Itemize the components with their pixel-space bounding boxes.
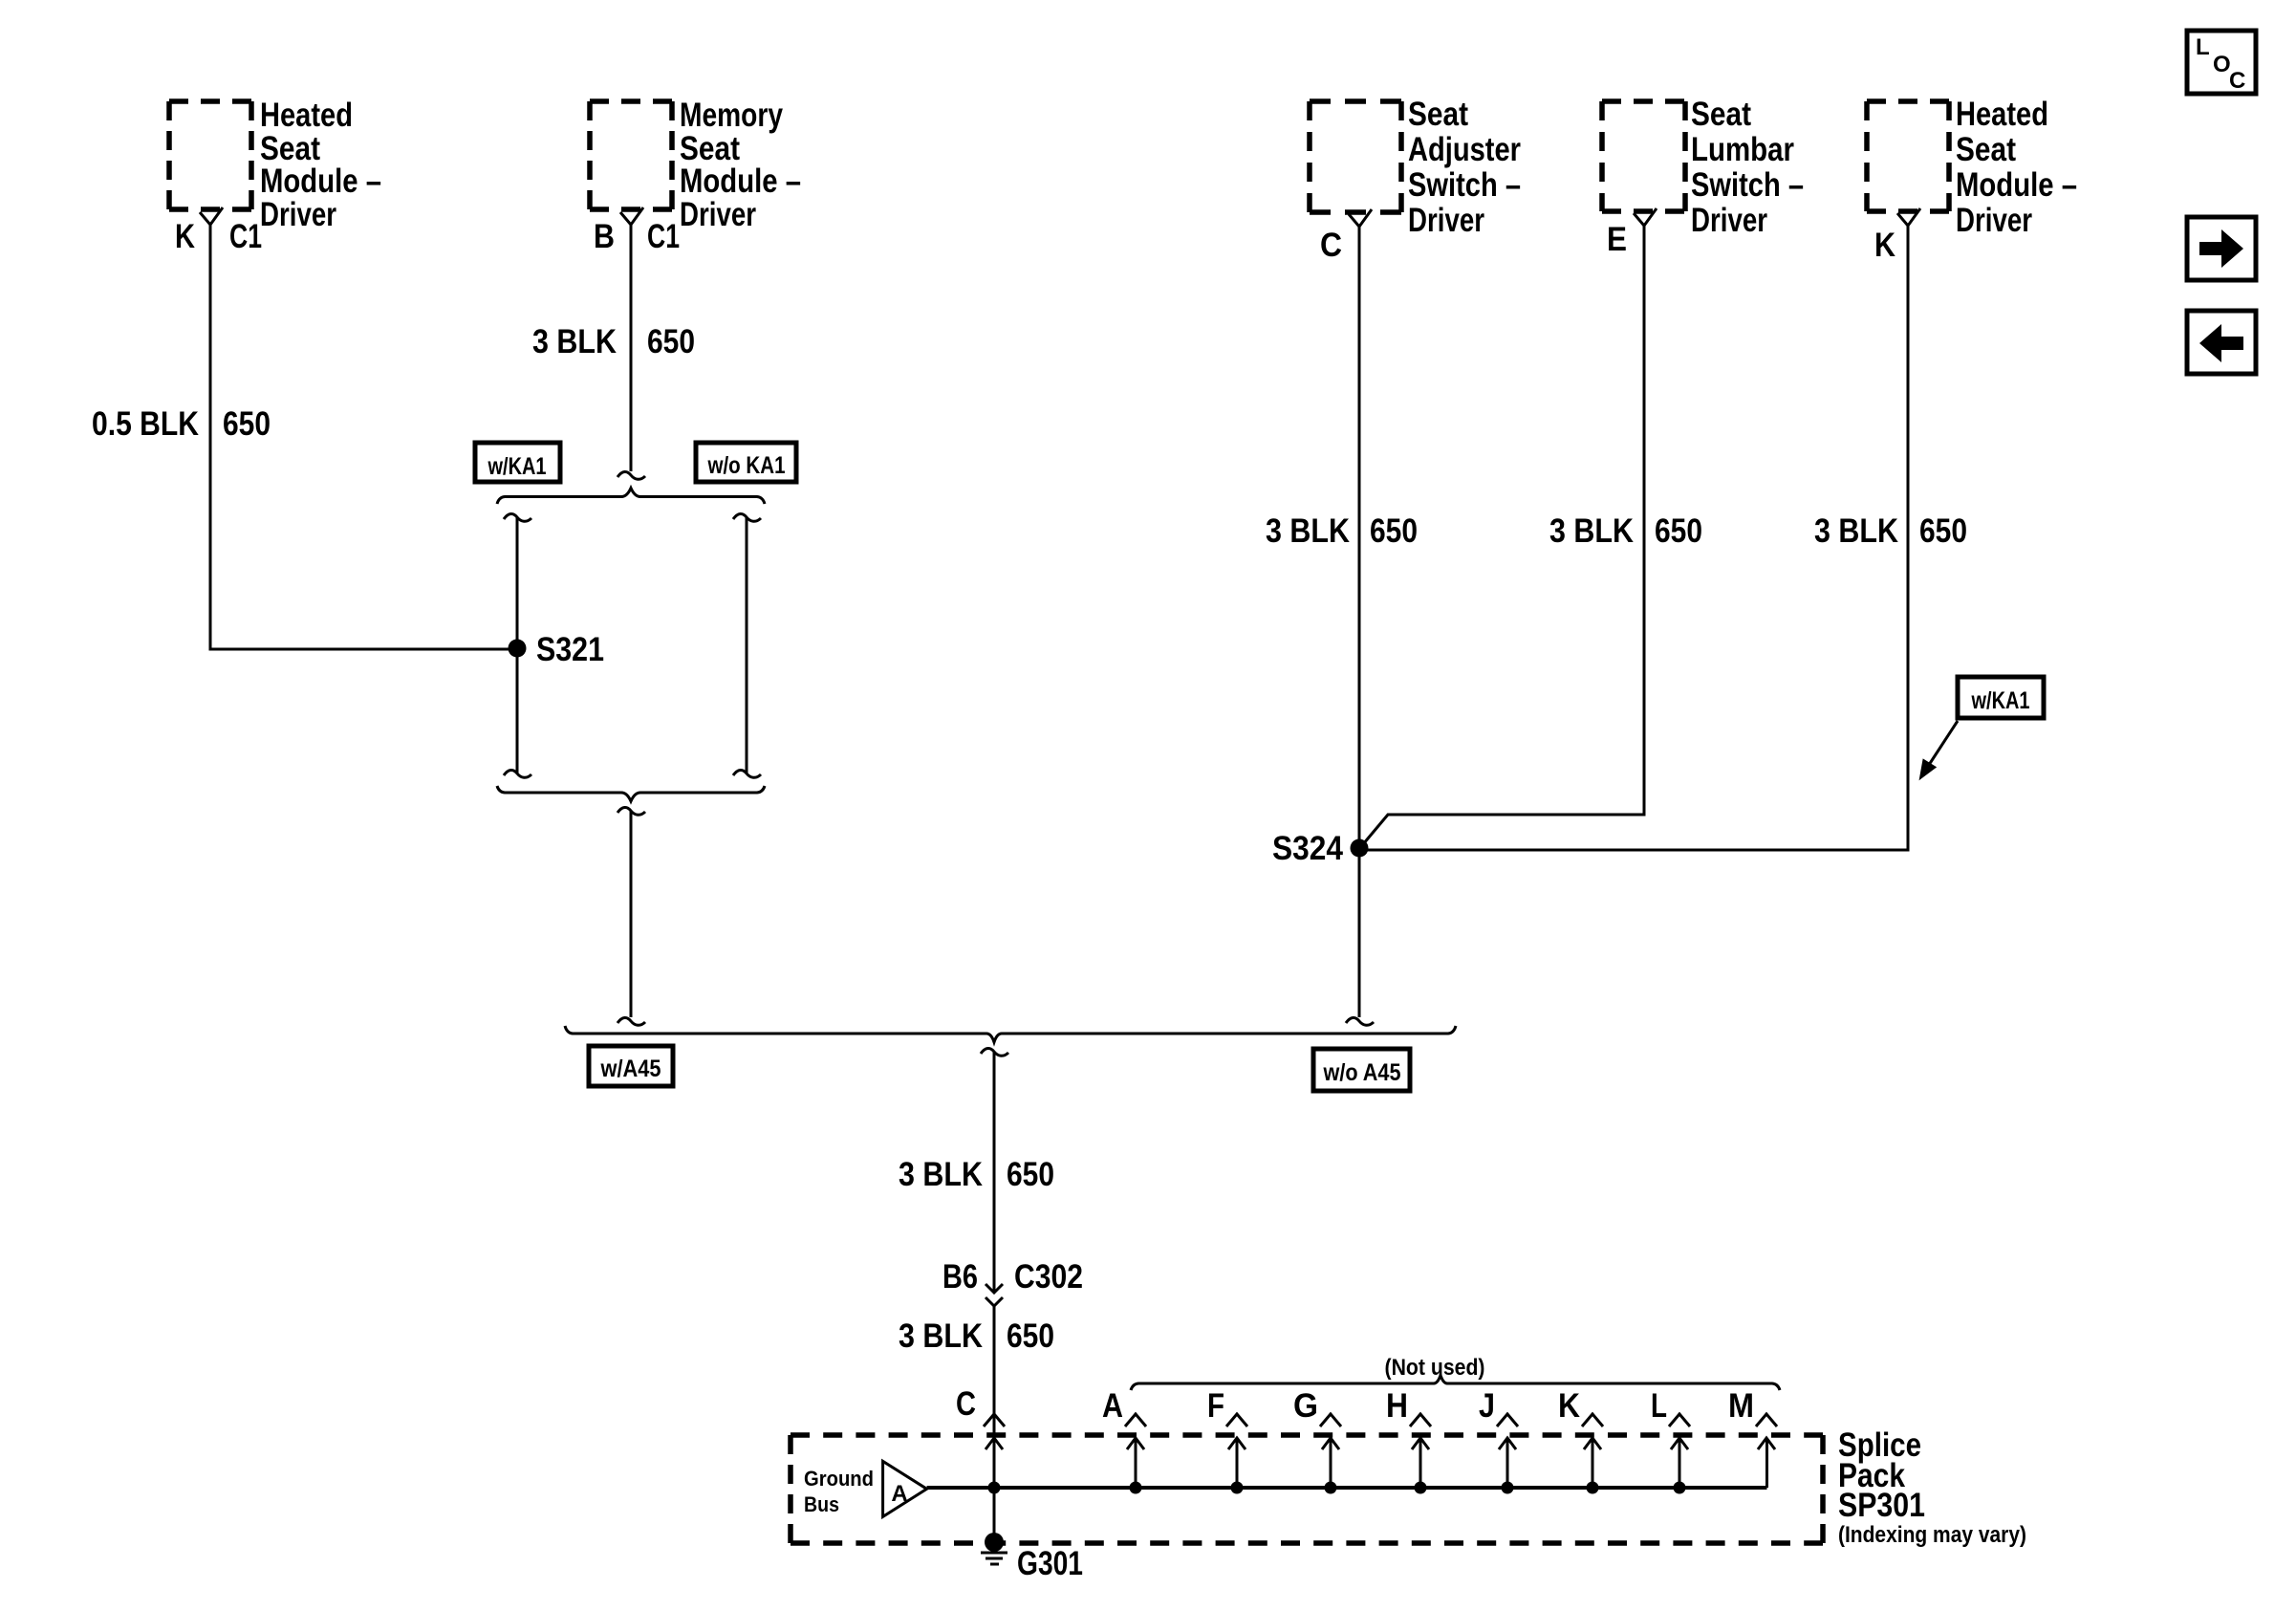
svg-text:3 BLK: 3 BLK bbox=[899, 1156, 983, 1193]
splice pack pin A bbox=[1102, 1387, 1146, 1494]
brace: (Not used) group over pins A-M bbox=[1131, 1355, 1780, 1390]
svg-text:G: G bbox=[1293, 1387, 1318, 1425]
wire: 3 BLK 650 from pin K down and left to S324 bbox=[1363, 225, 1908, 850]
svg-text:Driver: Driver bbox=[1691, 202, 1767, 239]
svg-text:Seat: Seat bbox=[1691, 96, 1751, 133]
svg-text:A: A bbox=[891, 1481, 907, 1507]
splice pack pin G bbox=[1293, 1387, 1341, 1494]
wire: 3 BLK 650 from pin C down to A45 split bbox=[1346, 226, 1374, 1025]
svg-text:SP301: SP301 bbox=[1838, 1487, 1925, 1524]
svg-text:650: 650 bbox=[223, 405, 271, 443]
option box w/A45 bbox=[589, 1046, 673, 1086]
svg-text:C: C bbox=[1320, 227, 1342, 264]
wire label 3 BLK 650 (E) bbox=[1549, 512, 1702, 550]
wire label 3 BLK 650 (above C302) bbox=[899, 1156, 1054, 1193]
svg-text:Ground: Ground bbox=[804, 1467, 874, 1491]
svg-text:S324: S324 bbox=[1272, 830, 1343, 867]
component: Heated Seat Module - Driver (right) dashed box bbox=[1867, 96, 2077, 239]
wire: merged segment down to A45 split bbox=[617, 807, 645, 1025]
svg-text:J: J bbox=[1479, 1387, 1495, 1425]
legend: right arrow box bbox=[2187, 217, 2256, 280]
brace: option merge bottom (cusp down) bbox=[497, 786, 765, 801]
svg-text:K: K bbox=[1558, 1387, 1580, 1425]
svg-text:Module –: Module – bbox=[260, 163, 381, 200]
svg-text:650: 650 bbox=[1919, 512, 1967, 550]
svg-text:C1: C1 bbox=[647, 218, 680, 255]
svg-text:(Not used): (Not used) bbox=[1385, 1355, 1485, 1381]
splice pack pin H bbox=[1386, 1387, 1431, 1494]
svg-text:K: K bbox=[1874, 227, 1895, 264]
brace: option split top (cusp up) bbox=[497, 489, 765, 505]
svg-text:C: C bbox=[2229, 68, 2245, 94]
svg-text:0.5 BLK: 0.5 BLK bbox=[92, 405, 199, 443]
svg-text:Seat: Seat bbox=[1956, 131, 2016, 168]
svg-text:K: K bbox=[175, 218, 195, 255]
svg-text:C1: C1 bbox=[229, 218, 262, 255]
svg-text:Driver: Driver bbox=[260, 196, 336, 233]
option box w/KA1 bbox=[475, 443, 560, 482]
svg-text:Lumbar: Lumbar bbox=[1691, 131, 1794, 168]
component: Splice Pack SP301 dashed box bbox=[791, 1435, 1823, 1543]
splice S321 bbox=[509, 631, 605, 668]
wire label 3 BLK 650 (C) bbox=[1266, 512, 1418, 550]
svg-text:3 BLK: 3 BLK bbox=[1549, 512, 1634, 550]
svg-text:650: 650 bbox=[1007, 1317, 1054, 1355]
brace: A45 option split (cusp down) bbox=[565, 1026, 1456, 1042]
svg-text:Driver: Driver bbox=[1408, 202, 1484, 239]
svg-text:M: M bbox=[1728, 1387, 1754, 1425]
pin E of Seat Lumbar Switch bbox=[1607, 208, 1657, 258]
splice S324 bbox=[1272, 830, 1369, 867]
svg-text:B: B bbox=[594, 218, 615, 255]
svg-text:3 BLK: 3 BLK bbox=[1266, 512, 1350, 550]
wire: 0.5 BLK 650 from pin K down and right to S321 bbox=[210, 224, 512, 649]
svg-text:3 BLK: 3 BLK bbox=[532, 323, 617, 360]
component: Heated Seat Module - Driver (left) dashed box bbox=[169, 97, 381, 233]
option box w/KA1 (right) with arrow to K wire bbox=[1920, 677, 2044, 778]
svg-text:Driver: Driver bbox=[680, 196, 756, 233]
wire: 3 BLK 650 from pin E down and left to S324 bbox=[1363, 225, 1644, 844]
splice pack pin F bbox=[1207, 1387, 1247, 1494]
wire: left option branch (w/KA1) bbox=[504, 513, 531, 777]
wire: ground bus horizontal bbox=[927, 1486, 1767, 1490]
connector B6 C302 in-line bbox=[942, 1258, 1083, 1306]
wire label 3 BLK 650 (K) bbox=[1814, 512, 1967, 550]
wire: 3 BLK 650 below C302 to splice pack bbox=[993, 1306, 996, 1534]
svg-text:650: 650 bbox=[647, 323, 695, 360]
svg-text:Switch –: Switch – bbox=[1691, 166, 1804, 204]
svg-text:Memory: Memory bbox=[680, 97, 783, 134]
svg-text:Switch –: Switch – bbox=[1408, 166, 1521, 204]
legend: left arrow box bbox=[2187, 311, 2256, 374]
svg-text:F: F bbox=[1207, 1387, 1224, 1425]
svg-text:H: H bbox=[1386, 1387, 1408, 1425]
svg-text:w/A45: w/A45 bbox=[600, 1056, 661, 1082]
pin B connector C1 of Memory Seat Module bbox=[594, 207, 680, 255]
svg-text:650: 650 bbox=[1370, 512, 1418, 550]
legend: LOC box bbox=[2187, 31, 2256, 94]
svg-text:Heated: Heated bbox=[1956, 96, 2048, 133]
svg-text:B6: B6 bbox=[942, 1258, 978, 1295]
node: C wire junction on bus bbox=[988, 1482, 1001, 1494]
svg-text:E: E bbox=[1607, 221, 1627, 258]
svg-text:w/o A45: w/o A45 bbox=[1323, 1059, 1401, 1086]
splice pack pin L bbox=[1651, 1387, 1690, 1494]
svg-text:A: A bbox=[1102, 1387, 1123, 1425]
splice pack pin M (bus corner) bbox=[1728, 1387, 1777, 1488]
svg-text:S321: S321 bbox=[536, 631, 604, 668]
svg-text:C302: C302 bbox=[1014, 1258, 1083, 1295]
svg-text:Driver: Driver bbox=[1956, 202, 2032, 239]
svg-text:w/KA1: w/KA1 bbox=[487, 453, 547, 480]
svg-text:w/KA1: w/KA1 bbox=[1971, 687, 2030, 714]
svg-text:Module –: Module – bbox=[1956, 166, 2077, 204]
svg-text:3 BLK: 3 BLK bbox=[899, 1317, 983, 1355]
splice pack pin J bbox=[1479, 1387, 1518, 1494]
svg-text:Heated: Heated bbox=[260, 97, 353, 134]
pin C of Seat Adjuster Switch bbox=[1320, 209, 1372, 264]
component: Seat Lumbar Switch - Driver dashed box bbox=[1602, 96, 1804, 239]
splice pack pin K bbox=[1558, 1387, 1603, 1494]
svg-text:G301: G301 bbox=[1017, 1545, 1083, 1582]
ground G301 bbox=[981, 1533, 1083, 1582]
wire label 3 BLK 650 (memory) bbox=[532, 323, 695, 360]
svg-text:(Indexing may vary): (Indexing may vary) bbox=[1838, 1522, 2026, 1548]
wire: common ground wire below A45 split bbox=[981, 1048, 1008, 1293]
pin K connector C1 of left Heated Seat Module bbox=[175, 207, 262, 255]
component: Seat Adjuster Switch - Driver dashed box bbox=[1310, 96, 1521, 239]
wire break symbol below memory wire bbox=[617, 471, 645, 479]
svg-text:Seat: Seat bbox=[1408, 96, 1468, 133]
svg-text:3 BLK: 3 BLK bbox=[1814, 512, 1898, 550]
wire: 3 BLK 650 from pin B down to option split bbox=[630, 224, 633, 471]
option box w/o KA1 bbox=[696, 443, 796, 482]
svg-text:Module –: Module – bbox=[680, 163, 801, 200]
svg-text:650: 650 bbox=[1655, 512, 1702, 550]
pin K of right Heated Seat Module bbox=[1874, 208, 1920, 264]
label Splice Pack SP301 bbox=[1838, 1426, 2026, 1548]
svg-text:650: 650 bbox=[1007, 1156, 1054, 1193]
option box w/o A45 bbox=[1313, 1049, 1410, 1091]
svg-text:O: O bbox=[2213, 52, 2231, 77]
svg-text:w/o KA1: w/o KA1 bbox=[707, 452, 786, 479]
pin C entry into splice pack (hat and arrow on wire) bbox=[956, 1385, 1005, 1449]
wire: right option branch (w/o KA1) bbox=[733, 513, 761, 777]
svg-text:C: C bbox=[956, 1385, 976, 1423]
svg-text:Bus: Bus bbox=[804, 1492, 839, 1516]
ground bus source triangle with pin A bbox=[883, 1461, 927, 1516]
component: Memory Seat Module - Driver dashed box bbox=[590, 97, 801, 233]
svg-text:L: L bbox=[1651, 1387, 1667, 1425]
wire label 3 BLK 650 (below C302) bbox=[899, 1317, 1054, 1355]
wire label 0.5 BLK 650 bbox=[92, 405, 271, 443]
label Ground Bus bbox=[804, 1467, 874, 1516]
svg-text:L: L bbox=[2196, 34, 2210, 60]
svg-text:Adjuster: Adjuster bbox=[1408, 131, 1521, 168]
